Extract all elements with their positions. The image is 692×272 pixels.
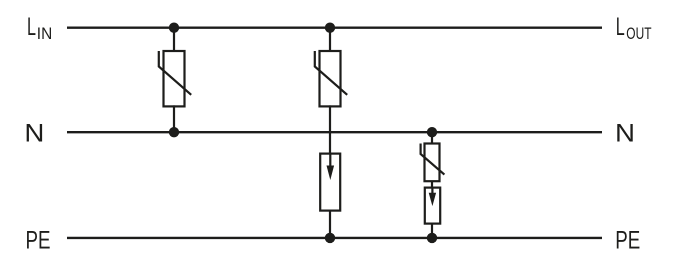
junction PE / F1 [325,233,335,243]
svg-text:PE: PE [26,227,51,255]
wire N to varistor RV3 [431,132,433,144]
junction L / RV1 [169,23,179,33]
wire N (left to right) [67,131,602,133]
svg-text:IN: IN [37,24,52,43]
wire L to varistor RV1 [173,28,175,52]
svg-text:PE: PE [615,227,640,255]
varistor RV2 [315,51,347,106]
svg-text:L: L [27,13,36,41]
wire varistor RV3 to arrester F2 [431,181,433,188]
junction N / RV3 [427,127,437,137]
svg-text:L: L [616,13,625,41]
surge arrester F2 [425,188,440,224]
svg-text:OUT: OUT [626,24,651,43]
wire L to varistor RV2 [329,28,331,52]
svg-text:N: N [24,120,44,148]
wire arrester F2 to PE [431,224,433,238]
svg-text:N: N [615,120,635,148]
junction N / RV1 [169,127,179,137]
surge arrester F1 [320,154,340,211]
varistor RV1 [159,51,191,106]
wire varistor RV1 to N [173,105,175,132]
junction L / RV2 [325,23,335,33]
wire varistor RV2 to arrester F1 (crosses N) [329,105,331,154]
junction PE / F2 [427,233,437,243]
wire arrester F1 to PE [329,211,331,238]
wire PE (left to right) [67,237,602,239]
wire L (L_IN to L_OUT) [67,27,602,29]
varistor RV3 [421,144,445,182]
